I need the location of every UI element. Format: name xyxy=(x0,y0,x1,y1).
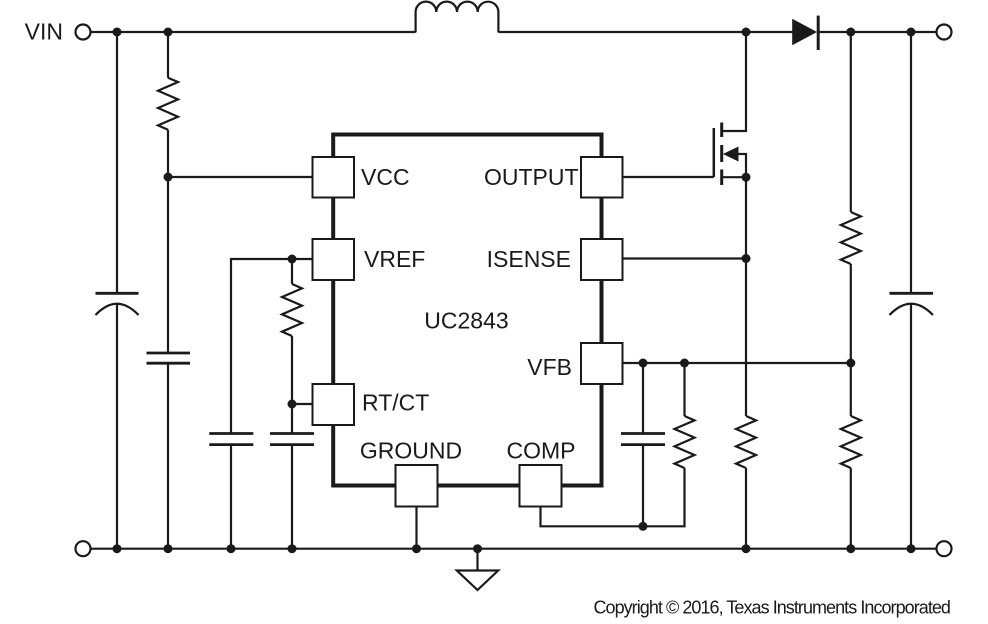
svg-text:UC2843: UC2843 xyxy=(424,308,508,334)
svg-text:COMP: COMP xyxy=(507,438,576,464)
svg-text:Copyright © 2016, Texas Instru: Copyright © 2016, Texas Instruments Inco… xyxy=(593,598,950,618)
svg-text:VCC: VCC xyxy=(361,164,410,190)
svg-text:VIN: VIN xyxy=(25,19,63,45)
svg-text:RT/CT: RT/CT xyxy=(362,390,429,416)
svg-text:VFB: VFB xyxy=(527,354,572,380)
svg-text:ISENSE: ISENSE xyxy=(487,246,571,272)
svg-text:OUTPUT: OUTPUT xyxy=(484,164,579,190)
svg-text:VREF: VREF xyxy=(364,246,425,272)
svg-text:GROUND: GROUND xyxy=(360,438,462,464)
